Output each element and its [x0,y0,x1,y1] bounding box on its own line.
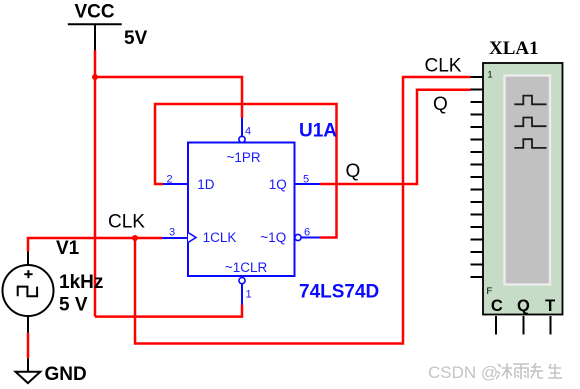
svg-text:C: C [491,297,503,315]
svg-text:Q: Q [433,94,448,115]
svg-text:~1Q: ~1Q [260,230,286,245]
svg-text:1: 1 [488,70,493,80]
svg-text:Q: Q [517,297,530,315]
svg-text:F: F [487,286,493,297]
svg-text:T: T [545,297,555,315]
svg-text:74LS74D: 74LS74D [299,282,379,303]
svg-text:CSDN @: CSDN @ [428,363,498,382]
svg-text:6: 6 [304,227,310,239]
svg-text:1kHz: 1kHz [59,272,103,293]
svg-text:1D: 1D [197,177,215,192]
svg-text:XLA1: XLA1 [489,38,539,59]
svg-text:CLK: CLK [425,55,462,76]
svg-text:1CLK: 1CLK [203,230,237,245]
svg-text:2: 2 [167,174,173,186]
svg-text:1: 1 [246,289,252,301]
svg-text:U1A: U1A [299,121,337,142]
svg-text:1Q: 1Q [269,177,287,192]
svg-text:5: 5 [303,174,309,186]
svg-text:V1: V1 [56,238,80,259]
svg-text:3: 3 [169,226,175,238]
svg-text:5V: 5V [124,28,148,49]
svg-text:Q: Q [346,161,361,182]
svg-text:CLK: CLK [108,212,145,233]
svg-text:~1PR: ~1PR [227,150,261,165]
svg-text:5 V: 5 V [59,295,88,316]
svg-text:GND: GND [45,364,87,385]
svg-text:~1CLR: ~1CLR [225,260,268,275]
svg-text:VCC: VCC [75,2,115,23]
svg-text:4: 4 [245,126,251,138]
